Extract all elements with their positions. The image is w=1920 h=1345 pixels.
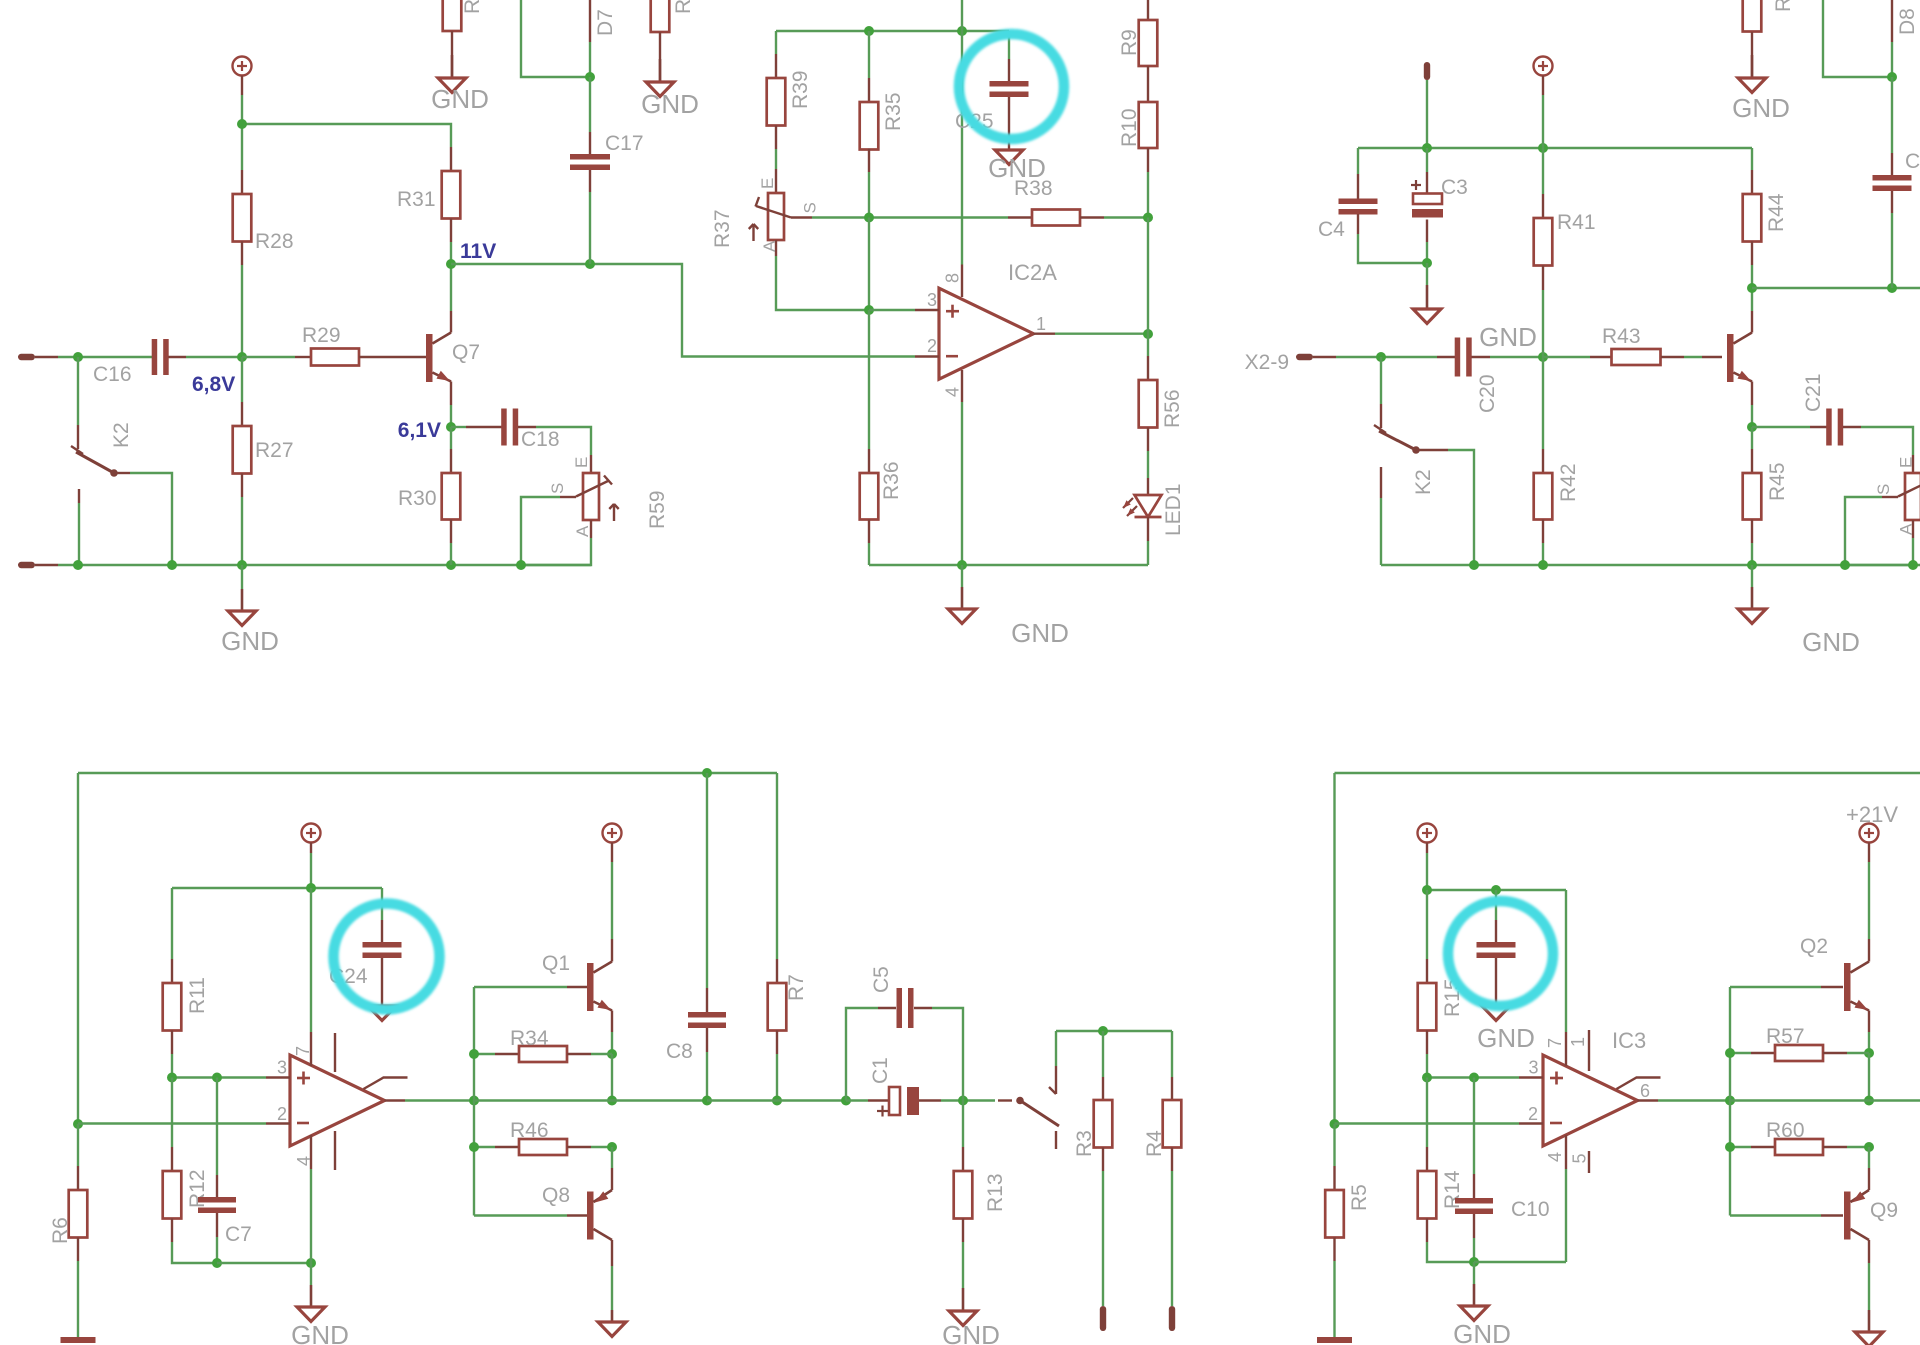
svg-text:C21: C21	[1802, 373, 1825, 412]
junction C22 bottom	[1887, 283, 1897, 293]
capacitor C10	[1455, 1078, 1550, 1263]
svg-text:2: 2	[927, 336, 937, 356]
svg-text:K2: K2	[1412, 469, 1435, 495]
junction bottom row at C7	[212, 1258, 222, 1268]
svg-text:R57: R57	[1766, 1025, 1805, 1048]
IC2A pin 1 output stub	[1034, 314, 1056, 334]
Q9 collector pin	[1868, 1240, 1870, 1310]
transistor Q9	[1730, 1190, 1898, 1240]
Q2 collector pin	[1868, 939, 1870, 962]
svg-text:GND: GND	[1453, 1319, 1511, 1345]
transistor Q7	[426, 333, 480, 383]
transistor Q (section C)	[1702, 333, 1752, 383]
power supply symbol (+) op-amp E	[1418, 824, 1437, 854]
op-amp (bottom-left)	[290, 1055, 385, 1146]
svg-text:GND: GND	[1802, 627, 1860, 657]
svg-text:2: 2	[277, 1104, 287, 1124]
junction C17 bottom at 11V rail	[585, 259, 595, 269]
svg-text:6: 6	[1640, 1081, 1650, 1101]
svg-text:Q7: Q7	[452, 341, 480, 364]
resistor R34	[474, 1027, 612, 1062]
svg-text:Q2: Q2	[1800, 935, 1828, 958]
ground GND op-amp E	[1453, 1262, 1511, 1345]
ground GND section C	[1738, 565, 1860, 657]
junction rail at R45	[1747, 560, 1757, 570]
junction rail at K2 throw	[167, 560, 177, 570]
svg-text:K2: K2	[110, 422, 133, 448]
svg-text:Q9: Q9	[1870, 1199, 1898, 1222]
op-amp D pin 5 stub	[334, 1131, 336, 1170]
resistor R45	[1743, 427, 1789, 565]
wire output row D	[405, 1099, 474, 1101]
wire D7 cathode net (inverted U)	[521, 0, 590, 77]
svg-text:R56: R56	[1161, 389, 1184, 428]
svg-text:GND: GND	[1479, 322, 1537, 352]
wire S row to R38	[812, 216, 1008, 218]
junction R57 row at base column	[1725, 1048, 1735, 1058]
svg-text:Q1: Q1	[542, 952, 570, 975]
resistor R46	[474, 1119, 612, 1155]
electrolytic capacitor C1	[846, 1057, 995, 1116]
svg-text:C3: C3	[1441, 176, 1468, 199]
power supply symbol (+) top-left	[233, 57, 252, 96]
wire top rail section C	[1358, 147, 1752, 149]
resistor R56	[1139, 334, 1184, 478]
resistor R (cut, top right)	[1743, 0, 1795, 78]
svg-text:R9: R9	[1118, 29, 1141, 56]
capacitor C21	[1752, 373, 1913, 455]
wire +21V to Q2 collector	[1868, 862, 1870, 939]
ground GND below R13	[942, 1288, 1000, 1345]
IC2A pin 3 stub	[915, 290, 939, 310]
wire left column down to -input	[77, 773, 79, 1124]
junction output row at C5 right / R13	[958, 1096, 968, 1106]
wire D8 cathode net (inverted U)	[1823, 0, 1892, 77]
voltage label 11V	[460, 240, 496, 263]
wire bottom row E	[1474, 1261, 1566, 1263]
op-amp IC2A	[939, 260, 1057, 379]
junction R60 row at base column	[1725, 1142, 1735, 1152]
capacitor C7	[198, 1078, 252, 1264]
resistor R6	[49, 1124, 87, 1337]
resistor R60	[1730, 1119, 1869, 1155]
wire pin7 to rail	[310, 888, 312, 1032]
svg-text:GND: GND	[1732, 93, 1790, 123]
wire bottom rail section B	[869, 564, 1148, 566]
wire pin7 rail E	[1427, 889, 1566, 891]
junction R41/R42/R43 node	[1538, 352, 1548, 362]
op-amp D output pin	[385, 1099, 406, 1101]
wire IC2A pin4 to rail	[961, 402, 963, 565]
resistor R4	[1143, 1031, 1181, 1306]
wire Q2 base row	[1730, 986, 1821, 988]
op-amp IC3	[1543, 1028, 1646, 1146]
junction V+ node at R28 column	[237, 119, 247, 129]
op-amp D pin 4 stub	[294, 1135, 314, 1169]
wire driver base column	[473, 987, 475, 1216]
svg-text:S: S	[1874, 484, 1893, 495]
capacitor C18	[451, 409, 591, 456]
wire + supply to rail	[1542, 95, 1544, 148]
junction pin7 rail at R15	[1422, 885, 1432, 895]
svg-text:1: 1	[1568, 1037, 1588, 1047]
svg-text:S: S	[548, 483, 567, 494]
Q1 collector pin	[611, 939, 613, 962]
resistor R12	[163, 1078, 217, 1264]
IC3 pin 7 stub	[1545, 1032, 1566, 1066]
wire R38 node down to output node	[1147, 218, 1149, 335]
junction rail at R42 right	[1538, 560, 1548, 570]
resistor R43	[1543, 325, 1702, 365]
op-amp D pin 1 slant mark	[364, 1078, 408, 1090]
resistor R10	[1118, 102, 1157, 218]
LED LED1	[1123, 478, 1185, 565]
svg-text:R10: R10	[1118, 108, 1141, 147]
wire R35 column down to +input	[868, 218, 870, 311]
svg-text:A: A	[760, 240, 779, 252]
svg-text:A: A	[573, 525, 592, 537]
Q8 emitter pin	[611, 1147, 613, 1190]
capacitor C17	[570, 77, 644, 264]
wire +input row E	[1427, 1076, 1519, 1078]
supply pin bar top-right	[1424, 62, 1430, 80]
svg-text:C18: C18	[521, 428, 560, 451]
junction rail at R58 S	[1840, 560, 1850, 570]
junction 6,1V node	[446, 422, 456, 432]
svg-text:4: 4	[943, 387, 963, 397]
label E of R58	[1897, 457, 1916, 468]
label E of R59	[572, 457, 591, 468]
junction emitter node section C	[1747, 422, 1757, 432]
svg-text:2: 2	[1528, 1104, 1538, 1124]
svg-text:R31: R31	[397, 188, 436, 211]
diode D7 lead from top edge	[589, 0, 591, 77]
wire + to pin7 rail	[310, 853, 312, 888]
wire + to pin7 rail E	[1426, 853, 1428, 890]
junction output row at R7	[772, 1096, 782, 1106]
power supply symbol (+) section C	[1534, 57, 1553, 96]
svg-text:R: R	[672, 0, 695, 14]
svg-text:6,8V: 6,8V	[192, 373, 235, 396]
svg-text:E: E	[572, 457, 591, 468]
svg-text:GND: GND	[431, 84, 489, 114]
junction R34 row at base column	[469, 1049, 479, 1059]
svg-text:Q8: Q8	[542, 1184, 570, 1207]
label E of R37	[758, 178, 777, 189]
junction output row at C8	[702, 1096, 712, 1106]
junction +input at R11	[167, 1073, 177, 1083]
svg-text:R13: R13	[984, 1173, 1007, 1212]
IC2A pin 4 stub	[943, 370, 963, 402]
voltage label 6,1V	[398, 419, 441, 442]
resistor R44	[1743, 148, 1788, 288]
junction top rail at R35	[864, 26, 874, 36]
op-amp D pin 3 stub	[266, 1058, 290, 1078]
ground GND below C3/C4	[1413, 263, 1537, 352]
resistor R5	[1325, 1124, 1371, 1337]
junction output row at driver column E	[1725, 1096, 1735, 1106]
svg-text:7: 7	[293, 1046, 313, 1056]
wire Q1 base row	[474, 986, 567, 988]
junction pin7 rail at C9	[1491, 885, 1501, 895]
op-amp D pin 7 stub	[293, 1032, 313, 1066]
resistor R11	[163, 888, 209, 1078]
power supply symbol (+) driver D	[603, 824, 622, 863]
ground GND below C25	[988, 150, 1046, 183]
wire -input row D	[78, 1122, 266, 1124]
junction 11V node	[446, 259, 456, 269]
svg-text:GND: GND	[988, 153, 1046, 183]
wire pin8 column from top edge	[961, 0, 963, 265]
svg-text:R7: R7	[785, 974, 808, 1001]
svg-text:R30: R30	[398, 487, 437, 510]
svg-text:1: 1	[1036, 314, 1046, 334]
ground GND section A	[221, 565, 279, 656]
junction IC2A output node	[1143, 329, 1153, 339]
earth symbol below R5	[1317, 1337, 1352, 1343]
ground GND below Q8	[598, 1310, 626, 1337]
capacitor C20	[1437, 338, 1499, 414]
svg-text:GND: GND	[641, 89, 699, 119]
svg-text:LED1: LED1	[1162, 483, 1185, 536]
IC2A pin 2 stub	[915, 336, 939, 357]
IC3 pin 5 stub	[1570, 1151, 1590, 1173]
svg-text:R59: R59	[646, 490, 669, 529]
junction rail at K2 pole	[73, 560, 83, 570]
junction R3 top	[1098, 1026, 1108, 1036]
Q7 collector pin	[450, 311, 452, 333]
junction rail at pin4/GND	[957, 560, 967, 570]
svg-text:R42: R42	[1557, 463, 1580, 502]
wire output row E2	[1730, 1099, 1920, 1101]
svg-text:R: R	[1772, 0, 1795, 12]
svg-text:C7: C7	[225, 1223, 252, 1246]
svg-text:3: 3	[927, 290, 937, 310]
svg-text:R27: R27	[255, 439, 294, 462]
svg-text:R41: R41	[1557, 211, 1596, 234]
resistor R7	[768, 773, 808, 1101]
wire top rail section B	[776, 30, 1009, 32]
svg-text:7: 7	[1545, 1038, 1565, 1048]
svg-text:S: S	[801, 202, 820, 213]
resistor R (cut, above left GND)	[443, 0, 484, 78]
junction X2-9/K2 node	[1376, 352, 1386, 362]
svg-text:A: A	[1897, 523, 1916, 535]
wire R31 bottom to Q7 collector (11V node)	[450, 242, 452, 311]
resistor R30	[398, 427, 460, 565]
svg-text:4: 4	[1545, 1152, 1565, 1162]
wire C16 to base node	[186, 356, 242, 358]
junction R34 node at Q1 emitter	[607, 1049, 617, 1059]
svg-text:E: E	[1897, 457, 1916, 468]
svg-text:C4: C4	[1318, 218, 1345, 241]
junction rail at R41 column	[1538, 143, 1548, 153]
junction input/K2 node	[73, 352, 83, 362]
svg-text:8: 8	[943, 273, 963, 283]
ground GND below C24	[368, 1006, 396, 1021]
pin below R4	[1169, 1306, 1175, 1331]
wire +input row D	[172, 1076, 266, 1078]
Q8 collector pin	[611, 1240, 613, 1310]
wire V+ rail to R31 column	[242, 124, 451, 147]
junction rail at K2 right throw	[1469, 560, 1479, 570]
junction output row at Q2/Q9	[1864, 1096, 1874, 1106]
wire R28 to base node	[241, 265, 243, 357]
svg-text:R43: R43	[1602, 325, 1641, 348]
capacitor C24	[329, 888, 402, 1006]
input pin X2-9	[1245, 351, 1336, 374]
input pin bottom-left	[18, 562, 58, 568]
trimmer R59	[521, 455, 669, 565]
resistor R (cut, above right GND)	[651, 0, 695, 82]
capacitor C25	[955, 31, 1029, 150]
IC3 pin 4 stub	[1545, 1135, 1566, 1169]
svg-text:R45: R45	[1766, 462, 1789, 501]
svg-text:R28: R28	[255, 230, 294, 253]
transistor Q1	[542, 952, 612, 1011]
svg-text:GND: GND	[221, 626, 279, 656]
resistor R31	[397, 147, 460, 242]
junction R60 node at Q9 emitter	[1864, 1142, 1874, 1152]
resistor R39	[767, 54, 812, 149]
svg-text:GND: GND	[942, 1320, 1000, 1345]
wire R3/R4 top rail	[1056, 1030, 1172, 1032]
svg-text:11V: 11V	[460, 240, 496, 263]
transistor Q8	[474, 1184, 612, 1240]
resistor R41	[1534, 148, 1596, 357]
wire pin4 to bottom row	[310, 1169, 312, 1263]
IC3 pin 6 slant mark	[1617, 1078, 1661, 1102]
resistor R35	[860, 31, 905, 217]
junction bottom row at C10	[1469, 1257, 1479, 1267]
junction top rail at C8	[702, 768, 712, 778]
svg-text:X2-9: X2-9	[1245, 351, 1289, 374]
resistor R9	[1118, 0, 1157, 102]
Q7 emitter pin wire	[450, 382, 452, 428]
junction base node 6,8V	[237, 352, 247, 362]
junction rail at R58 A	[1908, 560, 1918, 570]
wire + to Q1 collector	[611, 862, 613, 939]
junction +input at C7	[212, 1073, 222, 1083]
label A of R59	[573, 525, 592, 537]
svg-text:3: 3	[1528, 1058, 1538, 1078]
wire output row E	[1658, 1099, 1730, 1101]
wire switch top contact to R3/R4 rail	[1055, 1031, 1057, 1066]
svg-text:R29: R29	[302, 324, 341, 347]
junction -input at left column	[73, 1119, 83, 1129]
wire output row D3	[707, 1099, 846, 1101]
junction R46 node at Q8 emitter	[607, 1142, 617, 1152]
ground GND section B	[948, 565, 1069, 648]
label S of R59	[548, 483, 567, 494]
svg-text:GND: GND	[291, 1320, 349, 1345]
junction output row at Q1/Q8	[607, 1096, 617, 1106]
svg-text:R60: R60	[1766, 1119, 1805, 1142]
IC2A pin 8 stub	[943, 265, 963, 298]
junction output row at C5 left	[841, 1096, 851, 1106]
junction -input at right column	[1330, 1119, 1340, 1129]
wire C20 to R41 node	[1490, 356, 1543, 358]
junction rail at C3 column	[1422, 143, 1432, 153]
svg-text:C: C	[1905, 150, 1920, 173]
wire pin7 rail D	[172, 887, 382, 889]
Q collector pin section C	[1751, 288, 1753, 333]
wire top feedback rail D	[78, 772, 777, 774]
resistor R14	[1418, 1078, 1474, 1263]
svg-text:IC3: IC3	[1612, 1028, 1646, 1053]
wire driver base column E	[1729, 987, 1731, 1216]
highlight ring around C24	[334, 904, 440, 1010]
svg-text:C17: C17	[605, 132, 644, 155]
wire 11V node to C17 and IC2A -input	[451, 264, 915, 357]
IC3 pin 2 stub	[1519, 1104, 1543, 1124]
capacitor C4	[1318, 148, 1427, 263]
svg-text:4: 4	[294, 1156, 314, 1166]
resistor R28	[233, 170, 294, 265]
wire R44 node to C22 column	[1752, 287, 1920, 289]
switch K2 right pole wire	[1380, 357, 1382, 428]
switch K2 right	[1374, 425, 1474, 565]
junction bottom row at pin4	[306, 1258, 316, 1268]
junction rail at R30	[446, 560, 456, 570]
svg-text:C20: C20	[1476, 374, 1499, 413]
resistor R36	[860, 449, 903, 565]
resistor R27	[233, 357, 294, 565]
svg-text:R3: R3	[1073, 1130, 1096, 1157]
wire +input to IC2A pin3	[869, 309, 915, 311]
wire from + supply down through node to R28	[241, 95, 243, 170]
label D7	[594, 9, 617, 36]
svg-text:6,1V: 6,1V	[398, 419, 441, 442]
svg-text:R34: R34	[510, 1027, 549, 1050]
switch K2	[71, 422, 172, 565]
capacitor C5	[846, 966, 963, 1100]
svg-text:R44: R44	[1765, 193, 1788, 232]
ground GND below C9	[1477, 1006, 1535, 1053]
diode D8 lead from top edge	[1891, 0, 1893, 77]
IC3 pin 3 stub	[1519, 1058, 1543, 1078]
svg-text:R37: R37	[711, 209, 734, 248]
ground GND below second cut resistor	[641, 59, 699, 119]
junction S row at R35 column	[864, 213, 874, 223]
wire Q1 emitter to output row	[611, 1054, 613, 1101]
svg-text:C8: C8	[666, 1040, 693, 1063]
Q emitter pin section C	[1751, 382, 1753, 428]
switch K2 pole wire	[77, 357, 79, 449]
svg-text:5: 5	[1570, 1153, 1590, 1163]
IC3 pin 1 stub	[1568, 1030, 1589, 1071]
junction D7 node	[585, 72, 595, 82]
label S of R58	[1874, 484, 1893, 495]
svg-text:C5: C5	[870, 966, 893, 993]
wire -input row E	[1335, 1122, 1520, 1124]
label S of R37	[801, 202, 820, 213]
resistor R15	[1418, 890, 1464, 1078]
junction +input at R15	[1422, 1073, 1432, 1083]
wire top rail E	[1335, 772, 1920, 774]
junction rail at R27/GND	[237, 560, 247, 570]
op-amp D pin 2 stub	[266, 1104, 290, 1124]
wire IC3 pin4 to bottom row	[1565, 1169, 1567, 1262]
switch S output	[998, 1066, 1059, 1149]
svg-text:D8: D8	[1896, 8, 1919, 35]
wire right column down to -input	[1333, 773, 1335, 1124]
junction C3/C4 ground node	[1422, 258, 1432, 268]
wire output row D2	[474, 1099, 707, 1101]
svg-text:R4: R4	[1143, 1130, 1166, 1157]
junction +input node	[864, 305, 874, 315]
ground GND below cut resistor	[431, 55, 489, 114]
